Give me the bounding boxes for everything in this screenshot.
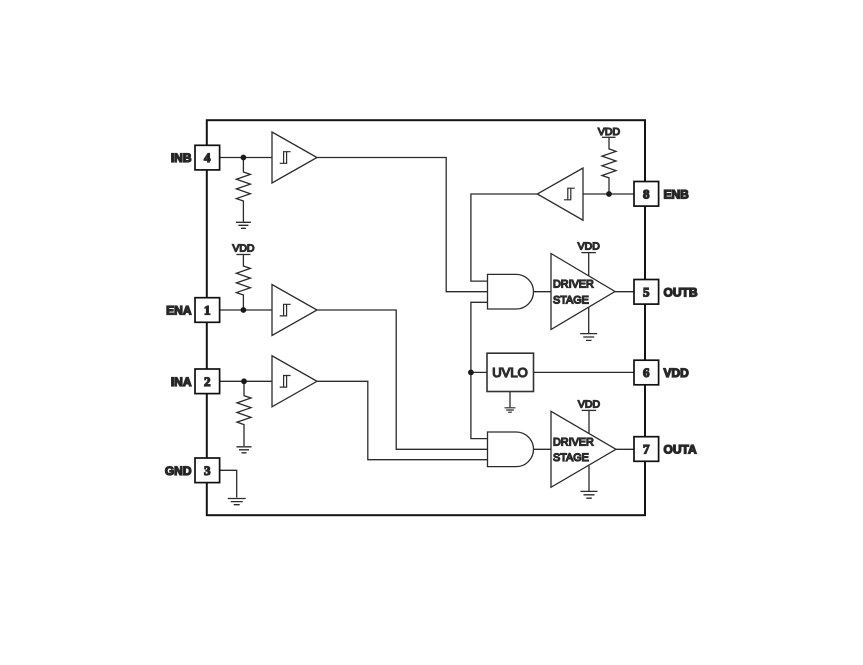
label VDD xyxy=(664,366,690,380)
wire ENA pin to buffer xyxy=(220,309,272,311)
label OUTA xyxy=(664,443,697,457)
driver stage B triangle xyxy=(551,254,615,330)
svg-text:8: 8 xyxy=(643,186,650,201)
wire driver A VDD-to-ground vertical xyxy=(588,410,590,491)
ground (driver B) xyxy=(580,334,597,341)
wire ENB buffer output to top AND upper input xyxy=(471,194,537,281)
svg-text:INB: INB xyxy=(171,151,192,165)
wire driver B VDD-to-ground vertical xyxy=(588,253,590,334)
schmitt buffer ENB (points left) xyxy=(537,168,583,220)
junction dot ENB xyxy=(606,191,612,197)
pin 2 box xyxy=(195,369,220,394)
wire driver B output to OUTB pin 5 xyxy=(615,291,634,293)
resistor (ENB pull-up) xyxy=(602,137,616,194)
svg-text:OUTB: OUTB xyxy=(664,285,698,299)
resistor (ENA pull-up) xyxy=(236,255,250,311)
pin 1 box xyxy=(195,298,220,323)
junction dot UVLO bus xyxy=(468,370,474,376)
wire UVLO to VDD pin 6 xyxy=(534,371,635,373)
schmitt buffer INB xyxy=(272,132,317,183)
resistor (INB pull-down) xyxy=(236,158,250,222)
label ENA xyxy=(166,304,192,318)
resistor (INA pull-down) xyxy=(237,381,251,446)
label GND xyxy=(165,464,192,478)
svg-text:3: 3 xyxy=(204,463,211,478)
schmitt buffer INA xyxy=(272,356,317,407)
ground (GND pin) xyxy=(228,499,246,505)
svg-text:STAGE: STAGE xyxy=(553,452,589,464)
VDD rail (ENA pull-up) xyxy=(232,242,255,254)
wire INB pin to buffer xyxy=(220,157,272,159)
svg-text:DRIVER: DRIVER xyxy=(553,279,594,291)
wire top AND output to driver B xyxy=(534,291,552,293)
pin 6 box xyxy=(634,360,659,385)
ground (INA pull-down) xyxy=(237,447,252,453)
VDD rail (driver A) xyxy=(578,399,601,411)
svg-text:1: 1 xyxy=(204,303,211,318)
svg-text:DRIVER: DRIVER xyxy=(553,436,594,448)
svg-text:7: 7 xyxy=(643,442,650,457)
pin 8 box xyxy=(634,182,659,207)
wire driver A output to OUTA pin 7 xyxy=(616,448,634,450)
pin 5 box xyxy=(634,280,659,305)
svg-text:VDD: VDD xyxy=(578,399,601,411)
UVLO block xyxy=(487,353,534,391)
svg-text:5: 5 xyxy=(643,284,650,299)
ground (INB pull-down) xyxy=(236,222,251,228)
svg-text:OUTA: OUTA xyxy=(664,443,697,457)
wire UVLO box to bus xyxy=(471,371,487,373)
schmitt buffer ENA xyxy=(272,285,317,336)
svg-text:VDD: VDD xyxy=(578,241,601,253)
wire INA buffer output to bottom AND lower input xyxy=(317,381,488,459)
svg-text:2: 2 xyxy=(204,374,211,389)
svg-text:STAGE: STAGE xyxy=(553,294,589,306)
wire INB buffer output to top AND middle input xyxy=(317,158,488,292)
wire GND pin to ground xyxy=(220,470,237,497)
svg-text:VDD: VDD xyxy=(664,366,690,380)
pin 4 box xyxy=(195,145,220,170)
junction dot ENA xyxy=(241,307,247,313)
AND gate A (3-input) xyxy=(488,432,534,467)
svg-text:ENB: ENB xyxy=(664,187,690,201)
label ENB xyxy=(664,187,690,201)
junction dot INA xyxy=(241,378,247,384)
svg-text:INA: INA xyxy=(171,375,192,389)
wire ENB pin to buffer input xyxy=(583,193,634,195)
svg-text:GND: GND xyxy=(165,464,192,478)
wire UVLO to ground xyxy=(509,392,511,408)
wire INA pin to buffer xyxy=(220,380,272,382)
svg-text:VDD: VDD xyxy=(598,126,621,138)
svg-text:VDD: VDD xyxy=(232,242,255,254)
svg-text:4: 4 xyxy=(204,150,211,165)
svg-text:ENA: ENA xyxy=(166,304,192,318)
pin 7 box xyxy=(634,437,659,462)
wire UVLO bus vertical (top AND lower input to bottom AND upper input) xyxy=(471,302,488,438)
svg-text:6: 6 xyxy=(643,365,650,380)
ground (UVLO) xyxy=(505,408,516,412)
driver stage A triangle xyxy=(551,411,616,487)
VDD rail (driver B) xyxy=(578,241,601,253)
wire ENA buffer output to bottom AND middle input xyxy=(317,310,488,449)
IC boundary box xyxy=(207,120,645,515)
label INB xyxy=(171,151,192,165)
AND gate B (3-input) xyxy=(488,274,534,309)
svg-text:UVLO: UVLO xyxy=(492,365,527,380)
label OUTB xyxy=(664,285,698,299)
ground (driver A) xyxy=(581,491,598,498)
label INA xyxy=(171,375,192,389)
wire bottom AND output to driver A xyxy=(534,448,552,450)
pin 3 box xyxy=(195,458,220,483)
VDD rail (ENB pull-up) xyxy=(598,126,621,138)
junction dot INB xyxy=(241,155,247,161)
